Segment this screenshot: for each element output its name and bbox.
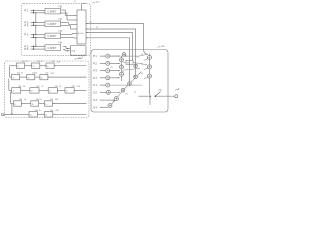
- svg-text:232: 232: [55, 86, 58, 88]
- svg-text:23: 23: [41, 86, 43, 88]
- svg-text:21: 21: [96, 27, 98, 29]
- svg-text:24: 24: [141, 73, 143, 75]
- svg-text:C-SHIFT: C-SHIFT: [47, 11, 57, 13]
- svg-text:C-SHIFT: C-SHIFT: [47, 36, 57, 38]
- svg-text:24: 24: [133, 76, 135, 78]
- svg-text:24: 24: [141, 64, 143, 66]
- svg-text:251: 251: [50, 110, 53, 112]
- svg-text:233: 233: [72, 86, 75, 88]
- svg-text:230: 230: [18, 86, 21, 88]
- svg-text:P 1: P 1: [25, 8, 29, 12]
- svg-text:212: 212: [52, 61, 55, 63]
- svg-text:24: 24: [39, 99, 41, 101]
- svg-text:24: 24: [137, 56, 139, 58]
- svg-text:210: 210: [22, 61, 25, 63]
- svg-text:250: 250: [35, 110, 38, 112]
- svg-text:21: 21: [41, 61, 43, 63]
- svg-text:222: 222: [45, 73, 48, 75]
- svg-text:P 3: P 3: [25, 47, 29, 51]
- svg-text:C-SHIFT: C-SHIFT: [47, 24, 57, 26]
- svg-text:21: 21: [90, 22, 92, 24]
- svg-text:P 1: P 1: [25, 33, 29, 37]
- svg-text:24: 24: [111, 67, 113, 69]
- svg-text:23: 23: [59, 86, 61, 88]
- svg-text:24: 24: [126, 94, 128, 96]
- svg-text:25: 25: [39, 110, 41, 112]
- svg-text:220: 220: [17, 73, 20, 75]
- svg-text:22: 22: [35, 73, 37, 75]
- svg-text:242: 242: [50, 99, 53, 101]
- svg-text:24: 24: [24, 99, 26, 101]
- svg-text:23: 23: [23, 86, 25, 88]
- svg-text:231: 231: [37, 86, 40, 88]
- svg-text:24: 24: [134, 92, 136, 94]
- svg-text:24: 24: [122, 71, 124, 73]
- svg-text:R-Cnt: R-Cnt: [78, 32, 84, 35]
- svg-text:22: 22: [21, 73, 23, 75]
- svg-text:P 3: P 3: [25, 23, 29, 27]
- svg-text:C-SHIFT: C-SHIFT: [47, 48, 57, 50]
- svg-text:24: 24: [141, 54, 143, 56]
- svg-text:24: 24: [113, 101, 115, 103]
- svg-text:21: 21: [26, 61, 28, 63]
- svg-text:240: 240: [19, 99, 22, 101]
- svg-text:22: 22: [74, 1, 76, 3]
